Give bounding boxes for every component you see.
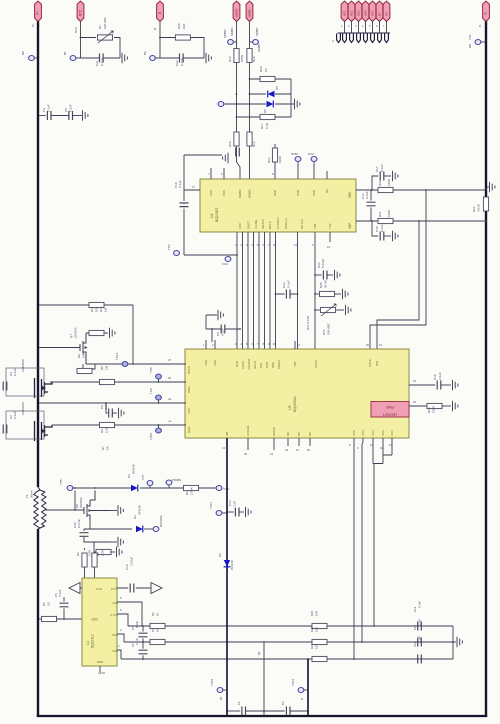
svg-text:2.0K: 2.0K <box>101 550 105 556</box>
node TP16 <box>291 678 308 700</box>
svg-text:2N7002: 2N7002 <box>79 497 83 508</box>
wire: right PACK- rail <box>485 20 487 717</box>
resistor R12 <box>247 132 256 147</box>
node TP8 <box>149 367 161 382</box>
capacitor C2b bottom <box>263 701 308 716</box>
svg-text:LEDOUT: LEDOUT <box>382 413 397 417</box>
ground Q5 drain <box>90 505 123 515</box>
resistor R8 <box>100 365 115 384</box>
svg-text:100K: 100K <box>387 210 391 217</box>
port arrow OVT <box>69 583 82 594</box>
wire: U5 NC stubs <box>285 438 310 452</box>
svg-text:R7: R7 <box>101 446 105 450</box>
IC U4 body <box>200 179 356 232</box>
svg-text:30mA: 30mA <box>30 490 34 498</box>
wire: PACK sense line to U5 <box>86 358 186 365</box>
svg-text:0.1uF: 0.1uF <box>365 191 369 199</box>
svg-text:RT: RT <box>98 25 102 29</box>
svg-text:C4: C4 <box>42 108 46 112</box>
svg-text:VC1: VC1 <box>343 10 347 16</box>
svg-text:0.43uF: 0.43uF <box>321 258 325 268</box>
svg-text:C2: C2 <box>281 701 285 705</box>
svg-text:VSS: VSS <box>204 360 208 366</box>
svg-text:VCC: VCC <box>187 407 191 414</box>
wire: cell sense row1 <box>128 625 453 627</box>
ground NTC loop <box>122 53 127 63</box>
svg-text:GND: GND <box>96 660 104 664</box>
svg-text:VC4: VC4 <box>361 430 365 436</box>
svg-text:VC5: VC5 <box>352 430 356 436</box>
svg-text:SMBD: SMBD <box>223 28 227 38</box>
svg-text:D4: D4 <box>127 474 131 478</box>
ground R28 <box>453 401 458 411</box>
ground for C4/C5 <box>73 110 88 120</box>
svg-text:B1: B1 <box>63 51 67 55</box>
node TP5 <box>59 479 73 490</box>
IC U1 body <box>82 578 118 666</box>
svg-text:R22: R22 <box>310 626 314 632</box>
connector J1 pin NTC <box>74 1 84 33</box>
svg-text:0.1uF: 0.1uF <box>135 638 139 645</box>
svg-text:0.1uF: 0.1uF <box>47 104 51 112</box>
svg-text:TP15: TP15 <box>210 678 214 686</box>
wire: fuse sense row <box>45 509 84 511</box>
svg-text:R19: R19 <box>252 56 256 62</box>
ground R14 <box>110 328 115 338</box>
svg-text:SMBC: SMBC <box>255 26 259 36</box>
svg-text:R28: R28 <box>427 407 431 413</box>
wire: NTC loop <box>80 21 120 58</box>
svg-text:R3: R3 <box>151 628 155 632</box>
svg-text:WDI: WDI <box>271 362 275 368</box>
svg-text:SBP: SBP <box>348 223 352 229</box>
svg-text:TP8: TP8 <box>149 367 153 373</box>
capacitor C11 on row3 <box>413 636 422 664</box>
svg-text:P-: P- <box>484 11 488 14</box>
ground C18 <box>453 380 458 390</box>
resistor R15 <box>259 66 275 81</box>
svg-text:2.0K: 2.0K <box>88 550 92 556</box>
ground U4 VSS <box>223 153 228 163</box>
svg-text:CLO: CLO <box>110 587 117 591</box>
svg-text:R12: R12 <box>252 141 256 147</box>
svg-text:VC2: VC2 <box>350 10 354 16</box>
svg-text:DRATA: DRATA <box>261 219 265 229</box>
svg-text:4.23uF: 4.23uF <box>130 556 134 566</box>
svg-text:10K: 10K <box>95 307 99 312</box>
svg-text:PC2: PC2 <box>308 152 314 156</box>
svg-text:0.1uF: 0.1uF <box>69 104 73 112</box>
capacitor C16 between SB lines <box>361 190 376 221</box>
node 5V50 at U4 KAB <box>291 152 301 179</box>
transistor Q5 <box>75 491 95 521</box>
wire: R11 row <box>37 304 133 364</box>
svg-text:XALERT: XALERT <box>247 358 251 370</box>
svg-text:KIN: KIN <box>375 361 379 366</box>
transistor Q7 <box>37 327 88 364</box>
svg-text:KAB: KAB <box>296 190 300 196</box>
svg-text:2.2uF: 2.2uF <box>438 372 442 380</box>
capacitor C12 at U4 VSS <box>236 148 240 157</box>
connector J1 pin P+ <box>31 1 41 27</box>
capacitor C19 <box>125 556 134 592</box>
svg-text:B1: B1 <box>219 696 223 700</box>
svg-text:IN4148: IN4148 <box>138 505 142 515</box>
ground C14 <box>246 507 251 517</box>
wire: U1 VD1 to row1 <box>117 596 142 626</box>
resistor R20 <box>175 23 190 40</box>
node TP14 <box>115 352 128 366</box>
svg-text:+1: +1 <box>168 419 172 423</box>
svg-text:R23: R23 <box>310 610 314 616</box>
thermistor RT1 <box>98 16 114 43</box>
wire: SMBD pull-up chain <box>236 21 240 179</box>
svg-text:R2: R2 <box>76 552 80 556</box>
wire: U5 VC1-VC3 merge <box>370 438 392 626</box>
wire: SMBC pull-up chain <box>249 21 251 179</box>
thermistor RT2 <box>306 304 344 335</box>
svg-text:R13: R13 <box>267 157 271 163</box>
svg-text:GPOD: GPOD <box>272 426 276 436</box>
svg-text:0.1uF: 0.1uF <box>418 601 422 608</box>
svg-text:1K: 1K <box>156 628 160 632</box>
svg-text:R18: R18 <box>228 141 232 147</box>
wire: PWRN row <box>73 487 217 510</box>
capacitor C12b on row2 <box>413 619 422 647</box>
ground C8 <box>119 408 124 418</box>
svg-text:R15: R15 <box>259 66 263 72</box>
svg-text:C13: C13 <box>413 606 417 612</box>
capacitor C4 <box>37 104 51 120</box>
resistor R18 <box>228 132 239 147</box>
wire: U4 SBP line <box>356 220 487 222</box>
wire: rows right tie <box>452 626 454 659</box>
svg-text:P+: P+ <box>31 23 35 27</box>
resistor R25 <box>315 280 341 296</box>
resistor R3b vertical <box>92 553 97 578</box>
wire: U5 LEDOUT pin to R28 <box>409 400 427 406</box>
svg-text:R14: R14 <box>99 306 103 312</box>
diode D2 <box>218 553 234 570</box>
ground R5 <box>117 547 122 557</box>
svg-text:91: 91 <box>168 376 172 380</box>
svg-text:TP2: TP2 <box>468 34 472 40</box>
svg-text:C19: C19 <box>125 564 129 570</box>
svg-text:BN: BN <box>468 44 472 48</box>
svg-text:BQ2058T: BQ2058T <box>215 207 219 222</box>
node TP11 <box>209 502 227 516</box>
node TP left of zener row <box>218 102 224 107</box>
connector PACK- pill <box>478 1 489 27</box>
wire: U1 VD3 to row2 <box>117 628 124 642</box>
wire: U4-U5 data bus <box>235 232 276 349</box>
node TP7 <box>141 474 153 488</box>
wire: VCC line to U5 <box>37 397 186 404</box>
svg-text:DNG: DNG <box>187 386 191 393</box>
svg-text:B2: B2 <box>257 651 261 655</box>
wire: U4 PEB stub <box>272 162 275 179</box>
svg-text:0.1uF: 0.1uF <box>380 224 384 232</box>
node TP10 <box>149 425 161 440</box>
svg-text:XLLBE: XLLBE <box>254 220 258 229</box>
svg-text:VCSA: VCSA <box>314 360 318 368</box>
diode D3 <box>90 505 153 532</box>
ground zener row <box>291 99 300 109</box>
svg-text:U5: U5 <box>288 405 292 410</box>
svg-text:TP10: TP10 <box>149 432 153 440</box>
svg-text:R16: R16 <box>228 56 232 62</box>
svg-text:C17: C17 <box>375 166 379 172</box>
resistor R19 <box>247 49 256 63</box>
resistor R13 <box>267 144 282 163</box>
svg-text:U4: U4 <box>210 214 214 218</box>
resistor R5 <box>94 542 115 556</box>
svg-text:OVT: OVT <box>96 587 102 591</box>
wire: U5 ZVCHG stub <box>244 438 248 456</box>
svg-text:NC FLL: NC FLL <box>300 218 304 229</box>
node BATRZE <box>153 515 163 531</box>
svg-text:RTO: RTO <box>235 360 239 367</box>
wire: C10 to VCC bus <box>184 254 238 256</box>
svg-text:VSS: VSS <box>222 190 226 196</box>
svg-text:BQ2060A: BQ2060A <box>293 396 297 412</box>
svg-text:0.1uF: 0.1uF <box>221 328 225 336</box>
wire: SBP drop to U5 KIN <box>377 221 419 349</box>
svg-text:SCELL4: SCELL4 <box>284 217 288 229</box>
wire: zener row 1 <box>250 93 292 95</box>
svg-text:Q7: Q7 <box>69 334 73 338</box>
svg-text:TP14: TP14 <box>115 352 119 360</box>
svg-text:ZVCHG: ZVCHG <box>246 425 250 436</box>
resistor R9 <box>77 353 95 373</box>
node TP on left rail <box>21 51 37 61</box>
svg-text:0.1uF: 0.1uF <box>100 58 104 66</box>
svg-text:0.1uF: 0.1uF <box>418 636 422 643</box>
svg-text:B: B <box>153 28 157 30</box>
svg-text:SB2: SB2 <box>348 192 352 198</box>
wire: U1 VCL2 drop <box>117 608 128 626</box>
wire: U5 VC5 drop <box>349 438 354 659</box>
svg-text:TB1: TB1 <box>313 223 317 229</box>
svg-text:0.1uF: 0.1uF <box>418 619 422 626</box>
svg-text:1M: 1M <box>104 307 108 312</box>
resistor R16 <box>228 49 244 63</box>
svg-text:CEGO: CEGO <box>277 359 281 369</box>
svg-text:1K: 1K <box>156 612 160 616</box>
svg-text:100K: 100K <box>278 156 282 163</box>
svg-text:C21: C21 <box>95 60 99 66</box>
resistor R4 <box>100 422 115 433</box>
capacitor C3 <box>3 368 17 390</box>
svg-text:TP9: TP9 <box>149 388 153 394</box>
zener D5 <box>268 86 279 98</box>
wire: R17 row <box>237 116 292 118</box>
svg-text:R17: R17 <box>260 123 264 129</box>
svg-text:GND: GND <box>98 671 106 675</box>
svg-text:R8: R8 <box>100 366 104 370</box>
svg-text:SMBC: SMBC <box>257 42 261 52</box>
ground R25 <box>343 289 348 299</box>
svg-text:F2804ND: F2804ND <box>21 401 25 415</box>
svg-text:1K: 1K <box>264 68 268 72</box>
svg-text:B: B <box>300 698 304 700</box>
svg-text:100K: 100K <box>240 55 244 62</box>
svg-text:PACK: PACK <box>187 366 191 374</box>
svg-text:10K: 10K <box>182 24 186 29</box>
svg-text:R6: R6 <box>185 491 189 495</box>
wire: U5 TB3 stub <box>295 341 300 349</box>
resistor R6 <box>184 485 199 495</box>
capacitor C20 <box>73 518 110 542</box>
svg-text:PWRN: PWRN <box>172 478 181 482</box>
resistor R21b on row3 <box>310 643 327 661</box>
svg-text:40.2K: 40.2K <box>324 280 328 288</box>
svg-text:B2: B2 <box>143 51 147 55</box>
svg-text:1K: 1K <box>106 446 110 450</box>
capacitor C2 <box>3 411 17 433</box>
svg-text:100R: 100R <box>432 405 436 413</box>
wire: U4 VSS pin stubs <box>208 168 224 179</box>
wire: U4 NC stub <box>326 171 328 179</box>
connector J2 crimp contacts <box>337 34 389 43</box>
svg-text:R21: R21 <box>378 211 382 217</box>
svg-text:C1: C1 <box>237 701 241 705</box>
capacitor C15 below SBP <box>372 221 391 241</box>
svg-text:U1: U1 <box>86 641 90 645</box>
svg-text:BQ29312: BQ29312 <box>91 634 95 648</box>
ground right rail top <box>486 182 495 192</box>
wire: R20/C22 loop <box>159 21 204 58</box>
svg-text:10K-90C: 10K-90C <box>103 16 107 29</box>
resistor R3 on row2 <box>150 628 165 645</box>
resistor R21 <box>378 210 393 224</box>
wire: U5 GPOD stub <box>270 438 274 456</box>
svg-text:0.1uF: 0.1uF <box>380 164 384 172</box>
svg-text:1uF: 1uF <box>233 501 237 506</box>
svg-text:SAFE: SAFE <box>368 359 372 367</box>
resistor R14 <box>89 330 104 335</box>
capacitor C9 with ground <box>206 310 241 342</box>
node TP SMBC <box>250 40 262 53</box>
capacitor C21 <box>95 54 104 67</box>
capacitor C6 <box>54 589 69 619</box>
capacitor C5 <box>51 104 73 120</box>
ground C17 <box>393 171 398 181</box>
svg-text:R1: R1 <box>42 602 46 606</box>
svg-text:VC4: VC4 <box>364 10 368 16</box>
connector J1 pin SMBC <box>246 1 259 36</box>
svg-text:R11: R11 <box>90 306 94 312</box>
svg-text:VC5: VC5 <box>371 10 375 16</box>
svg-text:0.1uF: 0.1uF <box>13 368 17 376</box>
resistor R28 <box>427 403 451 413</box>
svg-text:SMBC: SMBC <box>248 8 252 18</box>
wire: DNG line to U5 <box>50 376 186 383</box>
resistor R17 <box>260 114 275 129</box>
connector J1 pin B <box>153 1 163 30</box>
wire: zener row 2 <box>224 103 291 105</box>
capacitor C13 on row1 <box>413 601 422 631</box>
svg-text:LEDC: LEDC <box>241 360 245 369</box>
node B2 with test point <box>143 51 160 61</box>
svg-text:TP5: TP5 <box>59 479 63 485</box>
svg-text:D5: D5 <box>275 86 279 90</box>
svg-text:SMBC: SMBC <box>238 188 242 198</box>
svg-text:SHDT: SHDT <box>247 221 251 229</box>
wire: bottom rail <box>37 715 487 717</box>
connector J1 pin SMBD <box>230 1 240 36</box>
wire: U5 VC4 drop <box>357 438 363 642</box>
svg-text:R25: R25 <box>319 282 323 288</box>
capacitor C23 <box>275 280 298 298</box>
svg-text:0.1uF: 0.1uF <box>287 280 291 288</box>
wire: SB2 drop to U5 SAFE <box>370 190 426 349</box>
svg-text:F2804ND: F2804ND <box>21 358 25 372</box>
svg-text:R27 0.47K: R27 0.47K <box>306 316 310 330</box>
ground rows <box>453 637 462 647</box>
capacitor C10 on U4 left <box>174 155 222 255</box>
node B1 with test point <box>63 51 81 61</box>
resistor R3a vertical <box>76 548 92 578</box>
wire: cell sense row2 <box>124 641 453 643</box>
svg-text:PEB: PEB <box>273 190 277 196</box>
IC U5 body <box>185 349 409 438</box>
svg-text:1K: 1K <box>47 602 51 606</box>
resistor R11 <box>89 302 108 312</box>
node VCC right of R6 <box>216 486 230 492</box>
wire: U4 TS2 stub <box>327 232 330 249</box>
svg-text:SCLK: SCLK <box>253 361 257 369</box>
svg-text:0.1uF: 0.1uF <box>13 411 17 419</box>
svg-text:VCL2: VCL2 <box>110 613 118 617</box>
wire: R14 row <box>86 332 108 334</box>
wire: DSG line to U5 <box>52 419 186 426</box>
resistor R26 <box>378 178 393 193</box>
svg-text:VC3: VC3 <box>371 430 375 436</box>
svg-text:PMS: PMS <box>386 405 394 409</box>
wire: U5 DB line down <box>222 438 228 716</box>
resistor R1 <box>37 602 82 622</box>
svg-text:TP7: TP7 <box>141 474 145 480</box>
svg-text:VCC: VCC <box>238 222 242 229</box>
svg-text:VSS: VSS <box>209 190 213 196</box>
svg-text:VC3: VC3 <box>357 10 361 16</box>
wire: J2 pin stubs <box>341 21 387 33</box>
svg-text:DSG: DSG <box>187 426 191 433</box>
transistor Q1 pack FET <box>35 378 53 398</box>
wire: U5 SAFE/KIN pin numbers <box>366 343 382 347</box>
node VCC label <box>222 257 231 267</box>
wire: U5 right pin 32 RC to ground <box>409 379 435 385</box>
svg-text:C14: C14 <box>228 500 232 506</box>
svg-text:VSS: VSS <box>213 360 217 366</box>
svg-text:R21: R21 <box>310 643 314 649</box>
svg-text:SMBD: SMBD <box>230 26 234 36</box>
svg-text:16R: 16R <box>315 627 319 632</box>
resistor R23 on row1 <box>310 610 327 628</box>
svg-text:DB: DB <box>225 432 229 436</box>
package outline Q1 <box>6 358 44 396</box>
svg-text:PK: PK <box>385 12 389 16</box>
svg-text:VCC: VCC <box>222 262 229 266</box>
svg-text:R2: R2 <box>151 612 155 616</box>
fuse F1 <box>25 487 46 529</box>
svg-text:B: B <box>158 12 162 14</box>
svg-text:4.61K: 4.61K <box>477 204 481 212</box>
svg-text:0.1uF: 0.1uF <box>178 180 182 188</box>
capacitor C1 bottom <box>227 701 264 716</box>
svg-text:RT2: RT2 <box>322 329 326 335</box>
